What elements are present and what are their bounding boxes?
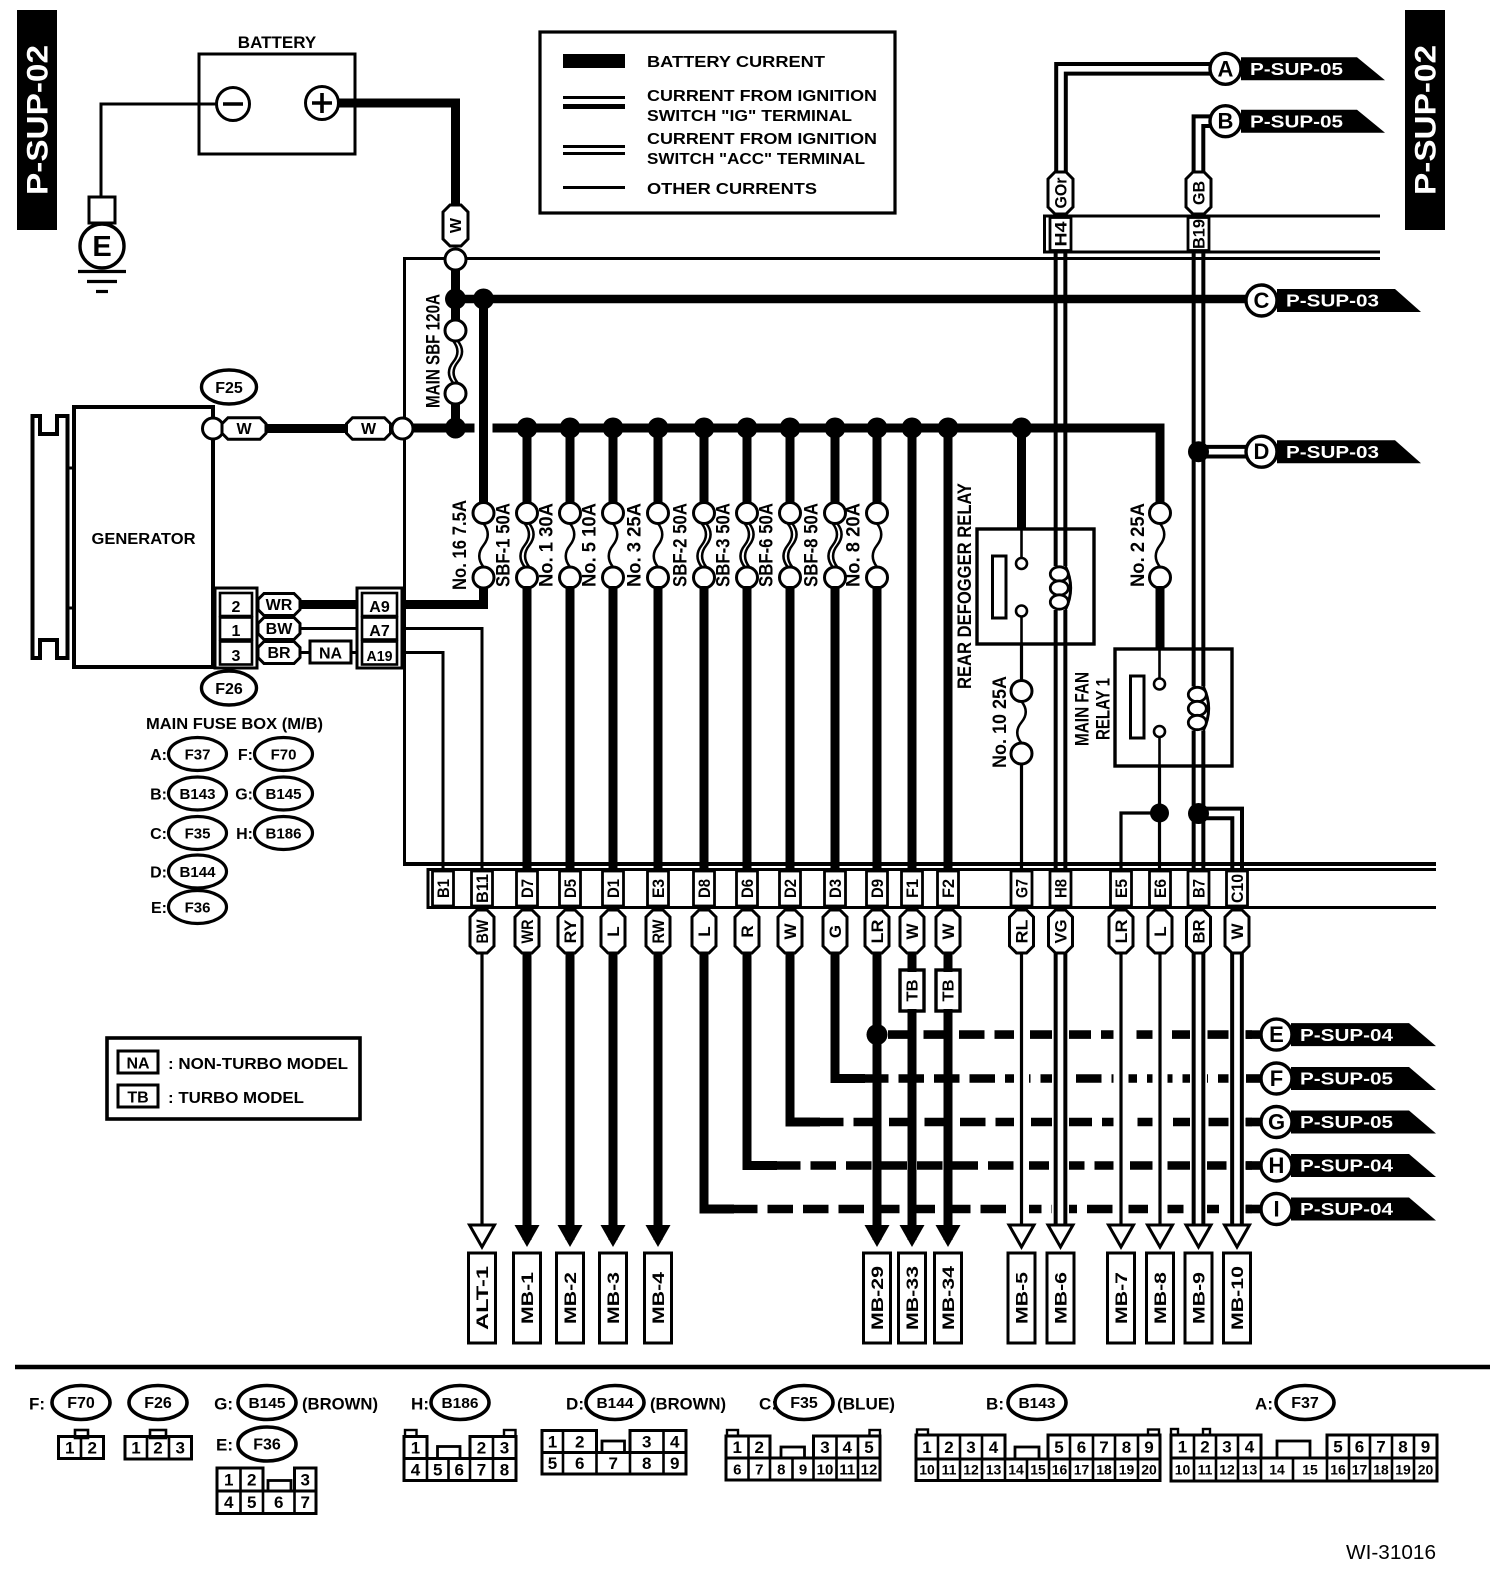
svg-text:2: 2 <box>153 1439 162 1458</box>
rear defogger relay box <box>977 529 1094 644</box>
svg-text:NA: NA <box>319 646 343 663</box>
wire color label W <box>1225 910 1249 953</box>
svg-text:7: 7 <box>1099 1438 1108 1457</box>
svg-text:1: 1 <box>224 1470 233 1489</box>
svg-text:20: 20 <box>1141 1462 1157 1478</box>
svg-text:F:: F: <box>29 1395 45 1414</box>
svg-text:B1: B1 <box>434 879 453 898</box>
wire to MB connector (thick) <box>654 953 663 1240</box>
pin C10 <box>1227 871 1248 906</box>
wire C10/W to MB-10 (double) <box>1229 1013 1246 1222</box>
wire BW to A7 <box>300 627 357 630</box>
svg-text:14: 14 <box>1269 1461 1285 1477</box>
flag B P-SUP-05 <box>1241 110 1385 133</box>
wire to TB option (thick) <box>908 953 917 972</box>
svg-text:P-SUP-03: P-SUP-03 <box>1286 291 1379 311</box>
svg-text:D2: D2 <box>781 879 800 898</box>
wire MAIN SBF to bus (thick) <box>451 403 460 428</box>
svg-text:12: 12 <box>861 1461 878 1478</box>
arrow to MB-33 <box>900 1225 925 1247</box>
svg-text:15: 15 <box>1030 1462 1046 1478</box>
arrow to MB-8 <box>1148 1225 1173 1247</box>
svg-text:E: E <box>92 231 111 263</box>
legend other currents line <box>563 186 625 189</box>
svg-text:H:: H: <box>411 1395 429 1414</box>
svg-text:W: W <box>939 923 958 940</box>
wire dashed to flag E (thick dashed) <box>888 1030 1252 1039</box>
svg-text:P-SUP-03: P-SUP-03 <box>1286 442 1379 462</box>
svg-text:BR: BR <box>1189 920 1208 944</box>
svg-text:12: 12 <box>963 1462 979 1478</box>
svg-text:9: 9 <box>799 1461 807 1478</box>
node GB to C10 branch <box>1188 803 1209 824</box>
svg-text:7: 7 <box>755 1461 763 1478</box>
flag C P-SUP-03 <box>1277 289 1421 312</box>
svg-text:11: 11 <box>942 1462 957 1478</box>
wire to A P-SUP-05 (IG double) <box>1056 64 1210 214</box>
wire color label WR <box>258 594 300 616</box>
wire bus to fuse SBF-3 50A (thick) <box>743 428 752 504</box>
svg-text:P-SUP-04: P-SUP-04 <box>1300 1156 1393 1176</box>
svg-text:WI-31016: WI-31016 <box>1346 1542 1436 1564</box>
svg-text:9: 9 <box>670 1454 679 1473</box>
fuse No. 16 7.5A <box>473 503 494 524</box>
wire color label W <box>347 418 391 440</box>
svg-text:D:: D: <box>566 1395 584 1414</box>
svg-text:3: 3 <box>500 1438 509 1457</box>
svg-text:E3: E3 <box>649 879 668 898</box>
svg-text:P-SUP-02: P-SUP-02 <box>22 45 55 195</box>
svg-text:No. 8 20A: No. 8 20A <box>844 503 865 587</box>
label MB-34 <box>935 1253 962 1343</box>
flag D P-SUP-03 <box>1277 440 1421 463</box>
legend NA/TB box <box>107 1038 360 1119</box>
svg-text:1: 1 <box>922 1438 931 1457</box>
wire GOr coil to pin H8 (double) <box>1054 610 1058 869</box>
svg-text:A:: A: <box>150 747 167 764</box>
wire bus to connector (thick) <box>944 428 953 869</box>
wire to MB connector (thick) <box>566 953 575 1240</box>
svg-text:No. 3 25A: No. 3 25A <box>625 503 646 587</box>
wire battery feed into box (thick) <box>451 269 460 299</box>
wire color label W <box>778 910 802 953</box>
svg-text:A9: A9 <box>369 599 390 616</box>
wire color label L <box>601 910 625 953</box>
main fan relay 1 box <box>1115 649 1232 766</box>
wire fan contact to pin E5 <box>1121 813 1160 869</box>
node bus tap SBF-8 50A <box>825 418 846 439</box>
svg-text:A:: A: <box>1255 1395 1273 1414</box>
wire B11/BW to ALT-1 <box>480 953 483 1225</box>
wire color label VG <box>1049 910 1073 953</box>
arrow to MB-6 <box>1048 1225 1073 1247</box>
svg-text:B144: B144 <box>180 864 217 881</box>
legend battery current bar <box>563 54 625 68</box>
wire generator feed vertical (thick) <box>479 299 488 504</box>
svg-text:MB-1: MB-1 <box>518 1272 537 1324</box>
node bus tap SBF-2 50A <box>694 418 715 439</box>
svg-text:3: 3 <box>176 1439 185 1458</box>
flag E P-SUP-04 <box>1291 1023 1436 1046</box>
svg-text:1: 1 <box>548 1432 557 1451</box>
wire bus to fuse SBF-1 50A (thick) <box>523 428 532 504</box>
svg-text:11: 11 <box>839 1461 855 1478</box>
fuse No. 10 25A <box>1011 681 1032 702</box>
arrow to MB-2 <box>558 1225 583 1247</box>
wire color label W (battery feed) <box>443 205 468 246</box>
relay contact pin top <box>1016 558 1027 569</box>
svg-text:B7: B7 <box>1189 879 1208 898</box>
legend box <box>540 32 895 213</box>
svg-text:BATTERY: BATTERY <box>238 33 317 52</box>
fuse No. 1 30A <box>560 503 581 524</box>
wire bus to fuse No. 1 30A (thick) <box>566 428 575 504</box>
pin B11 <box>472 871 493 906</box>
svg-text:SBF-2 50A: SBF-2 50A <box>671 503 692 587</box>
wire dashed to flag H (thick dashed) <box>775 1161 1252 1170</box>
legend IG lines <box>563 96 625 99</box>
relay contact bar <box>1131 676 1145 738</box>
label MB-7 <box>1108 1253 1135 1343</box>
wire corner to flag row (thick) <box>747 953 777 1166</box>
svg-text:F70: F70 <box>67 1395 95 1412</box>
svg-text:WR: WR <box>266 597 293 614</box>
wire A19 to pin B1 <box>402 653 443 870</box>
wire color label RL <box>1010 910 1034 953</box>
node battery feed junction <box>445 289 466 310</box>
svg-text:2: 2 <box>755 1438 764 1457</box>
svg-text:17: 17 <box>1074 1462 1090 1478</box>
svg-text:B143: B143 <box>1019 1395 1056 1412</box>
svg-text:B143: B143 <box>180 786 216 803</box>
arrow to MB-34 <box>936 1225 961 1247</box>
wire bus to fuse SBF-6 50A (thick) <box>786 428 795 504</box>
main fuse box bottom edge <box>403 862 1436 866</box>
wire color label RY <box>558 910 582 953</box>
svg-text:: NON-TURBO MODEL: : NON-TURBO MODEL <box>168 1056 348 1073</box>
svg-text:4: 4 <box>843 1438 853 1457</box>
option box TB (turbo) F2 <box>936 970 960 1011</box>
wire fuse SBF-8 50A to connector (thick) <box>831 586 840 869</box>
wire color label L <box>692 910 716 953</box>
arrow to MB-7 <box>1109 1225 1134 1247</box>
svg-text:BW: BW <box>473 919 492 944</box>
svg-text:B11: B11 <box>473 874 492 903</box>
svg-text:A7: A7 <box>369 623 390 640</box>
relay coil (main fan) <box>1203 687 1208 731</box>
svg-text:9: 9 <box>1421 1437 1430 1456</box>
ground point E <box>80 224 124 268</box>
svg-text:12: 12 <box>1219 1461 1235 1477</box>
fuse SBF-6 50A <box>780 503 801 524</box>
svg-text:MB-29: MB-29 <box>868 1266 887 1330</box>
flag A P-SUP-05 <box>1241 57 1385 80</box>
svg-text:2: 2 <box>575 1432 584 1451</box>
wire color label BR <box>258 642 300 664</box>
wire fuse No. 1 30A to connector (thick) <box>566 586 575 869</box>
fuse No. 3 25A <box>648 503 669 524</box>
svg-text:F1: F1 <box>903 879 922 898</box>
svg-text:D1: D1 <box>604 879 623 898</box>
main bus left segment (thick) <box>411 424 475 433</box>
svg-text:D8: D8 <box>695 879 714 898</box>
svg-text:W: W <box>781 923 800 940</box>
svg-text:No. 16 7.5A: No. 16 7.5A <box>450 500 471 590</box>
svg-text:VG: VG <box>1051 920 1070 944</box>
svg-text:D5: D5 <box>561 879 580 898</box>
svg-text:B:: B: <box>986 1395 1004 1414</box>
svg-text:8: 8 <box>1398 1437 1407 1456</box>
svg-text:H:: H: <box>236 826 253 843</box>
flag F P-SUP-05 <box>1291 1067 1436 1090</box>
wire GOr vertical (IG double) <box>1054 252 1058 566</box>
label MB-4 <box>645 1253 672 1343</box>
wire color label W <box>936 910 960 953</box>
relay coil (defogger) <box>1065 566 1070 610</box>
wire color label W <box>222 418 266 440</box>
label MB-10 <box>1224 1253 1251 1343</box>
svg-text:MB-3: MB-3 <box>604 1272 623 1324</box>
wire fan relay contact down <box>1158 766 1161 813</box>
wire fuse SBF-1 50A to connector (thick) <box>523 586 532 869</box>
connector circle at generator <box>203 418 224 439</box>
node bus tap SBF-6 50A <box>780 418 801 439</box>
svg-text:MB-4: MB-4 <box>649 1271 668 1324</box>
svg-text:R: R <box>738 925 757 937</box>
pin E3 <box>648 871 669 906</box>
svg-text:11: 11 <box>1198 1461 1213 1477</box>
svg-text:SBF-3 50A: SBF-3 50A <box>714 503 735 587</box>
wire color label BW <box>470 910 494 953</box>
svg-text:F25: F25 <box>215 380 243 397</box>
wire to B P-SUP-05 (IG double) <box>1194 116 1211 214</box>
svg-text:E:: E: <box>216 1436 233 1455</box>
relay contact bar <box>993 556 1007 618</box>
svg-text:SWITCH "IG" TERMINAL: SWITCH "IG" TERMINAL <box>647 108 852 125</box>
svg-text:4: 4 <box>411 1460 421 1479</box>
generator frame bracket <box>33 416 68 658</box>
svg-text:B: B <box>1218 109 1234 134</box>
svg-text:TB: TB <box>127 1090 148 1107</box>
label ALT-1 <box>469 1253 496 1343</box>
relay contact pin bottom <box>1016 606 1027 617</box>
wire generator feed A9 elbow (thick) <box>402 586 484 605</box>
svg-text:D7: D7 <box>518 879 537 898</box>
svg-text:14: 14 <box>1008 1462 1024 1478</box>
wire color label BR <box>1187 910 1211 953</box>
label MB-33 <box>899 1253 926 1343</box>
pin D6 <box>737 871 758 906</box>
bracket tick bottom <box>68 607 75 610</box>
svg-text:10: 10 <box>919 1462 935 1478</box>
svg-text:GOr: GOr <box>1051 177 1070 208</box>
svg-text:B145: B145 <box>249 1395 286 1412</box>
svg-text:20: 20 <box>1418 1461 1434 1477</box>
svg-text:19: 19 <box>1395 1461 1411 1477</box>
svg-text:P-SUP-05: P-SUP-05 <box>1300 1069 1393 1089</box>
label MB-3 <box>600 1253 627 1343</box>
svg-text:D:: D: <box>150 865 167 882</box>
svg-text:GENERATOR: GENERATOR <box>92 531 196 548</box>
svg-text:OTHER CURRENTS: OTHER CURRENTS <box>647 181 817 198</box>
svg-text:A: A <box>1218 56 1234 81</box>
fuse SBF-8 50A <box>825 503 846 524</box>
svg-text:MAIN FAN: MAIN FAN <box>1071 672 1093 746</box>
svg-text:2: 2 <box>477 1438 486 1457</box>
fuse box pins block A9/A7/A19 <box>357 588 402 668</box>
svg-text:9: 9 <box>1144 1438 1153 1457</box>
svg-text:TB: TB <box>905 980 922 1002</box>
svg-text:8: 8 <box>1122 1438 1131 1457</box>
svg-text:CURRENT FROM IGNITION: CURRENT FROM IGNITION <box>647 88 877 105</box>
node bus tap <box>902 418 923 439</box>
svg-text:18: 18 <box>1373 1461 1389 1477</box>
arrow to MB-10 <box>1225 1225 1250 1247</box>
svg-text:H: H <box>1269 1153 1285 1178</box>
bracket tick top <box>68 467 75 470</box>
wire dashed to flag I (thick dashed) <box>732 1205 1252 1214</box>
svg-text:C: C <box>1254 288 1270 313</box>
svg-text:7: 7 <box>301 1493 310 1512</box>
svg-text:10: 10 <box>1175 1461 1191 1477</box>
svg-text:W: W <box>903 923 922 940</box>
svg-text:B186: B186 <box>266 826 302 843</box>
svg-text:RL: RL <box>1012 920 1031 944</box>
node bus tap No. 5 10A <box>603 418 624 439</box>
wire bus to connector (thick) <box>908 428 917 869</box>
pin D8 <box>694 871 715 906</box>
wire BR to NA <box>300 651 310 654</box>
svg-text:WR: WR <box>518 920 537 944</box>
svg-text:17: 17 <box>1352 1461 1368 1477</box>
node fan contact junction <box>1150 804 1169 823</box>
wire NA to A19 <box>351 651 357 654</box>
node generator feed junction <box>473 289 494 310</box>
svg-text:MB-7: MB-7 <box>1112 1272 1131 1324</box>
svg-text:RELAY 1: RELAY 1 <box>1092 678 1114 740</box>
wire TB to MB connector (thick) <box>944 1009 953 1240</box>
svg-text:3: 3 <box>232 648 241 665</box>
wire TB to MB connector (thick) <box>908 1009 917 1240</box>
svg-text:3: 3 <box>820 1438 829 1457</box>
wire fuse No. 2 to main fan relay (thick) <box>1156 586 1165 649</box>
wire battery negative to ground <box>101 104 217 197</box>
node E junction on LR <box>867 1024 888 1045</box>
wire color label R <box>735 910 759 953</box>
svg-text:2: 2 <box>247 1470 256 1489</box>
wire E5/LR to MB-7 <box>1114 1013 1129 1222</box>
wire fuse SBF-2 50A to connector (thick) <box>700 586 709 869</box>
svg-text:4: 4 <box>989 1438 999 1457</box>
svg-text:16: 16 <box>1330 1461 1346 1477</box>
label MB-1 <box>514 1253 541 1343</box>
svg-text:MB-2: MB-2 <box>561 1272 580 1324</box>
svg-text:6: 6 <box>455 1460 464 1479</box>
label MB-8 <box>1147 1253 1174 1343</box>
svg-text:G:: G: <box>235 787 253 804</box>
svg-text:6: 6 <box>575 1454 584 1473</box>
wire fuse No. 8 20A to connector (thick) <box>873 586 882 869</box>
svg-text:TB: TB <box>941 980 958 1002</box>
svg-text:2: 2 <box>88 1438 97 1457</box>
node bus tap No. 3 25A <box>648 418 669 439</box>
pin D9 <box>867 871 888 906</box>
wire color label GB <box>1186 172 1211 214</box>
wire MAIN SBF upper stub <box>451 299 460 321</box>
flag I P-SUP-04 <box>1291 1198 1436 1221</box>
wire corner to flag row (thick) <box>790 953 820 1122</box>
svg-text:P-SUP-02: P-SUP-02 <box>1410 45 1443 195</box>
arrow to ALT-1 <box>470 1225 495 1247</box>
fuse SBF-3 50A <box>737 503 758 524</box>
node bus tap <box>938 418 959 439</box>
svg-text:D6: D6 <box>738 879 757 898</box>
wire to C P-SUP-03 (thick) <box>452 295 1246 304</box>
relay contact wire bottom <box>1020 617 1023 645</box>
svg-text:D9: D9 <box>868 879 887 898</box>
option box TB (turbo) F1 <box>900 970 924 1011</box>
node bus tap No. 1 30A <box>560 418 581 439</box>
node bus tap rear defogger <box>1011 418 1032 439</box>
svg-text:NA: NA <box>126 1056 150 1073</box>
wire H8/VG to MB-6 (double) <box>1052 1013 1069 1222</box>
svg-text:C10: C10 <box>1228 874 1247 903</box>
svg-text:W: W <box>236 421 252 438</box>
svg-text:5: 5 <box>1333 1437 1342 1456</box>
svg-text:LR: LR <box>1112 920 1131 944</box>
svg-text:MB-6: MB-6 <box>1051 1272 1070 1324</box>
pin B7 <box>1188 871 1209 906</box>
svg-text:A19: A19 <box>367 648 393 665</box>
svg-text:BR: BR <box>267 645 291 662</box>
svg-text:16: 16 <box>1052 1462 1068 1478</box>
label MB-29 <box>864 1253 891 1343</box>
title banner right P-SUP-02 <box>1405 10 1445 230</box>
arrow to MB-4 <box>646 1225 671 1247</box>
wire dashed to flag G (thick dashed) <box>818 1118 1252 1127</box>
wire WR to A9 (thick) <box>300 600 357 609</box>
label MB-9 <box>1185 1253 1212 1343</box>
svg-text:B19: B19 <box>1189 219 1208 249</box>
pin F1 <box>902 871 923 906</box>
pin G7 <box>1011 871 1032 906</box>
label MB-2 <box>557 1253 584 1343</box>
svg-text:P-SUP-04: P-SUP-04 <box>1300 1199 1393 1219</box>
svg-text:RW: RW <box>649 919 668 944</box>
svg-text:No. 10 25A: No. 10 25A <box>990 676 1011 768</box>
main fuse box left edge <box>403 257 406 864</box>
svg-text:6: 6 <box>1077 1438 1086 1457</box>
svg-text:10: 10 <box>817 1461 834 1478</box>
svg-text:E: E <box>1269 1022 1284 1047</box>
svg-text:G: G <box>1268 1110 1285 1135</box>
pin D1 <box>603 871 624 906</box>
svg-text:No. 2 25A: No. 2 25A <box>1128 503 1149 587</box>
fuse SBF-2 50A <box>694 503 715 524</box>
svg-text:CURRENT FROM IGNITION: CURRENT FROM IGNITION <box>647 131 877 148</box>
svg-text:GB: GB <box>1189 181 1208 205</box>
svg-text:D: D <box>1254 439 1270 464</box>
wire defogger contact to fuse No. 10 <box>1020 644 1023 681</box>
svg-text:P-SUP-04: P-SUP-04 <box>1300 1025 1393 1045</box>
svg-text:3: 3 <box>966 1438 975 1457</box>
arrow to MB-29 <box>865 1225 890 1247</box>
svg-text:H4: H4 <box>1051 221 1070 247</box>
wire A7 to pin B11 <box>402 629 482 870</box>
svg-text:F:: F: <box>238 747 253 764</box>
wire B7/BR to MB-9 (double) <box>1190 1013 1207 1222</box>
battery positive terminal <box>306 87 339 120</box>
